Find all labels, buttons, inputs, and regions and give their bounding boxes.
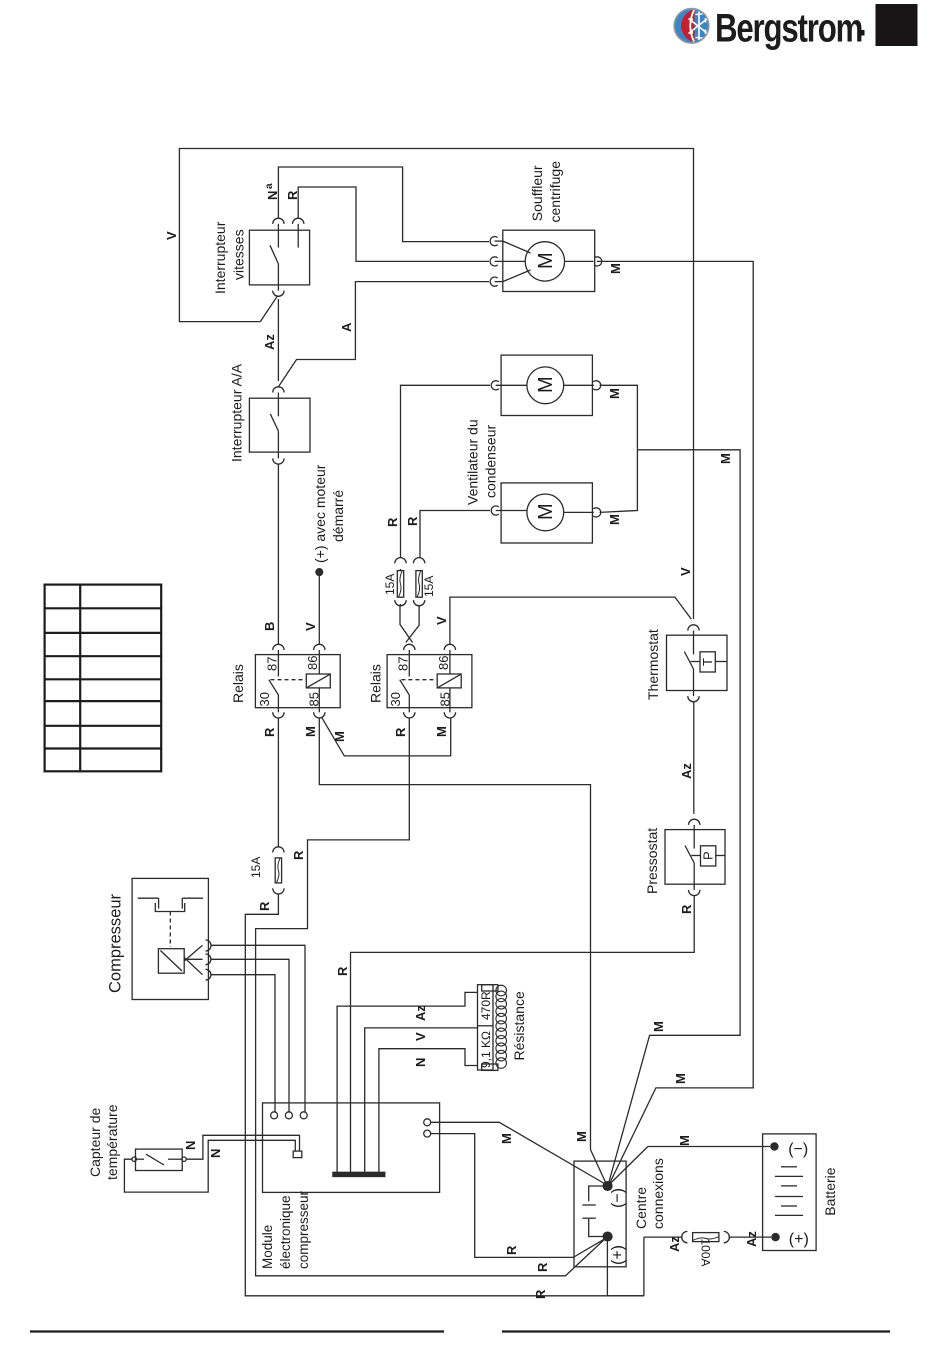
pressostat P label [644,828,716,914]
switch SW1 interrupteur vitesses [249,218,309,296]
svg-text:15A: 15A [383,574,397,595]
wire V relay2-86 to thermostat [450,597,691,644]
wire V supply loop [179,149,693,620]
svg-text:86: 86 [305,656,320,670]
svg-text:R: R [257,901,272,911]
svg-text:Az: Az [679,763,694,779]
compresseur [132,878,211,999]
svg-text:M: M [607,514,622,525]
wire V relay1-86 with (+) tap dot [318,572,320,644]
svg-text:87: 87 [265,657,280,671]
svg-text:(−): (−) [610,1188,627,1208]
svg-text:M: M [434,726,449,737]
wire M relay1-85 link to relay2-85 [322,717,451,756]
svg-text:N: N [208,1149,223,1158]
svg-text:(+) avec moteur: (+) avec moteur [312,464,328,563]
relay 2 pin labels 87 30 86 85 + name Relais [368,656,453,707]
svg-text:Pressostat: Pressostat [644,828,660,894]
svg-text:9,1 KΩ: 9,1 KΩ [479,1031,493,1068]
batterie [763,1134,817,1251]
svg-text:R: R [504,1245,519,1255]
module R wire to centre (+) [431,1134,606,1258]
svg-text:vitesses: vitesses [231,229,247,280]
wire M condenser fans to centre [600,385,638,450]
footer rule left [30,1330,444,1332]
wire Az between switches [277,299,279,381]
svg-text:M: M [535,376,557,393]
svg-text:condenseur: condenseur [483,424,499,498]
svg-text:R: R [291,850,306,860]
wire rail (+) centre to battery feed [606,1237,608,1295]
module electronique compresseur [263,1103,440,1193]
svg-text:85: 85 [438,692,453,706]
fuse 15A (compressor feed) [273,847,284,894]
centre connexions [574,1161,626,1267]
svg-text:M: M [499,1133,514,1144]
svg-text:V: V [413,1032,428,1041]
svg-text:30: 30 [388,692,403,706]
fuse 15A (condenser 1) [395,558,406,606]
wire R relay2-30 to battery feed rail [256,718,606,1276]
souffleur centrifuge (blower) [490,230,602,291]
svg-text:R: R [405,516,420,526]
svg-text:Ventilateur du: Ventilateur du [465,419,481,505]
svg-text:30: 30 [257,692,272,706]
net labels R rail [257,901,548,1299]
svg-text:85: 85 [307,692,322,706]
svg-text:Souffleur: Souffleur [529,165,545,221]
svg-text:compresseur: compresseur [296,1190,311,1269]
svg-text:M: M [535,252,557,269]
value labels 15A 15A [383,574,436,597]
svg-text:(−): (−) [788,1141,808,1158]
wire fuse to battery (+) [729,1236,772,1238]
svg-text:P: P [701,851,716,860]
label souffleur centrifuge + motor M [529,161,623,274]
label ventilateur du condenseur + motors M [465,376,623,525]
svg-text:T: T [700,658,715,666]
svg-text:87: 87 [396,657,411,671]
wire R relay1-30 to 15A fuse [277,718,279,847]
svg-text:R: R [535,1262,550,1272]
wire Az thermostat to pressostat [693,702,695,814]
switch SW2 interrupteur A/A [249,387,310,464]
svg-text:connexions: connexions [650,1158,666,1229]
svg-text:100A: 100A [699,1238,713,1266]
svg-text:M: M [332,731,347,742]
svg-text:M: M [608,263,623,274]
svg-text:470R: 470R [479,991,493,1020]
wire B relay1-87 to A/A switch [277,464,279,644]
svg-text:Interrupteur A/A: Interrupteur A/A [229,363,245,462]
wire M blower to centre connexions [597,261,753,1184]
Bergstrom wordmark [715,6,862,51]
pressostat [665,819,725,895]
svg-text:R: R [533,1289,548,1299]
wire Na from speed switch to blower [278,167,489,242]
svg-text:Résistance: Résistance [511,991,527,1060]
svg-text:Az: Az [262,334,277,350]
svg-text:température: température [104,1104,120,1180]
svg-text:15A: 15A [422,576,436,597]
svg-text:A: A [339,322,354,332]
svg-text:R: R [385,517,400,527]
relais 1 [255,644,340,718]
svg-text:M: M [535,503,557,520]
svg-text:M: M [574,1131,589,1142]
svg-text:Batterie: Batterie [822,1167,838,1215]
svg-text:M: M [607,388,622,399]
net labels R feed rail [262,727,277,737]
label module electronique compresseur [260,1190,311,1269]
svg-text:Compresseur: Compresseur [107,893,125,993]
svg-text:a: a [264,183,275,189]
wire M relay1-85 to centre [319,718,606,1184]
Bergstrom logo globe [673,8,709,44]
net label R module wire [504,1245,519,1255]
svg-text:M: M [673,1073,688,1084]
net label R pressostat return [335,966,350,976]
net labels R fan fuses [385,516,420,527]
svg-text:V: V [164,231,179,240]
svg-text:R: R [335,966,350,976]
labels Az 100A Az battery feed [667,1231,759,1267]
wire R pressostat to module [351,896,695,1172]
svg-text:R: R [262,727,277,737]
compressor wires to module [211,945,305,1112]
thermostat T label [645,629,715,779]
value labels 9,1 KOhm 470R + name Resistance [479,991,527,1068]
ventilateur du condenseur fan 2 [491,483,601,543]
net label M module wire [499,1133,514,1144]
black square top right [876,4,918,46]
svg-text:V: V [678,567,693,576]
capteur wires to module plug [124,1140,295,1192]
svg-text:Az: Az [744,1231,759,1247]
label interrupteur vitesses + pins Na R [212,183,300,294]
relay 1 pin labels 87 30 86 85 + name Relais [230,656,322,707]
svg-text:M: M [651,1021,666,1032]
net label M battery wire [677,1135,692,1146]
svg-text:centrifuge: centrifuge [547,161,563,223]
wire R from speed switch to blower [298,187,489,261]
svg-text:N: N [413,1058,428,1067]
module wires to resistance [337,992,477,1172]
svg-text:Az: Az [667,1236,682,1252]
wire R fan1 to fuse [401,385,491,557]
wire A from blower to A/A switch [278,282,489,387]
empty legend table [45,585,162,772]
relais 2 [387,644,472,718]
module plug square [293,1151,302,1158]
svg-text:Interrupteur: Interrupteur [212,221,228,294]
label capteur de temperature + nets N N [87,1104,223,1180]
svg-text:Bergstrom: Bergstrom [715,6,862,51]
node V label [164,231,179,240]
net labels V [434,567,693,625]
module M wire to centre [431,1122,606,1184]
fuse 100A [682,1231,730,1242]
wire V diagonal to speed switch [260,296,277,321]
svg-text:B: B [262,622,277,631]
label (+) avec moteur demarre + net V B [303,464,346,631]
svg-text:Thermostat: Thermostat [645,629,661,700]
X crossing into relay 2 pin 87 [400,606,413,643]
svg-text:(+): (+) [789,1231,809,1248]
net labels M relay1-85 [303,726,589,1142]
svg-text:R: R [679,904,694,914]
svg-text:Module: Module [260,1225,275,1269]
wire R fuse to battery feed rail [245,894,644,1296]
svg-text:M: M [677,1135,692,1146]
wire M battery to centre [610,1147,770,1185]
footer rule right [502,1330,890,1332]
net labels Az V N resistance wires [413,1005,428,1067]
svg-text:N: N [183,1141,198,1150]
svg-text:V: V [303,622,318,631]
svg-text:M: M [303,726,318,737]
svg-text:(+): (+) [610,1245,627,1265]
svg-text:Centre: Centre [633,1187,649,1229]
value label 15A compressor fuse [249,857,263,878]
label interrupteur A/A [229,363,245,462]
label compresseur [107,893,125,993]
svg-text:démarré: démarré [330,490,346,542]
resistance [478,985,507,1071]
wire R fan2 to fuse [420,511,490,558]
thermostat [667,625,728,702]
centre connexions labels (-) (+) Centre connexions [610,1158,667,1265]
net labels M relay link [332,726,449,742]
capteur de temperature [132,1149,186,1170]
ventilateur du condenseur fan 1 [491,355,601,415]
svg-text:86: 86 [436,656,451,670]
svg-text:Az: Az [413,1005,428,1021]
svg-text:Capteur de: Capteur de [87,1108,103,1177]
svg-text:15A: 15A [249,857,263,878]
svg-text:V: V [434,616,449,625]
svg-text:Relais: Relais [368,664,384,703]
battery labels (-) (+) Batterie [788,1141,838,1248]
net labels R relay2 rail [291,727,550,1272]
svg-text:Relais: Relais [230,664,246,703]
svg-text:électronique: électronique [278,1195,293,1269]
svg-text:M: M [718,453,733,464]
net labels M condenser/souffleur buses [651,453,733,1084]
svg-text:R: R [393,727,408,737]
fuse 15A (condenser 2) [413,558,424,606]
